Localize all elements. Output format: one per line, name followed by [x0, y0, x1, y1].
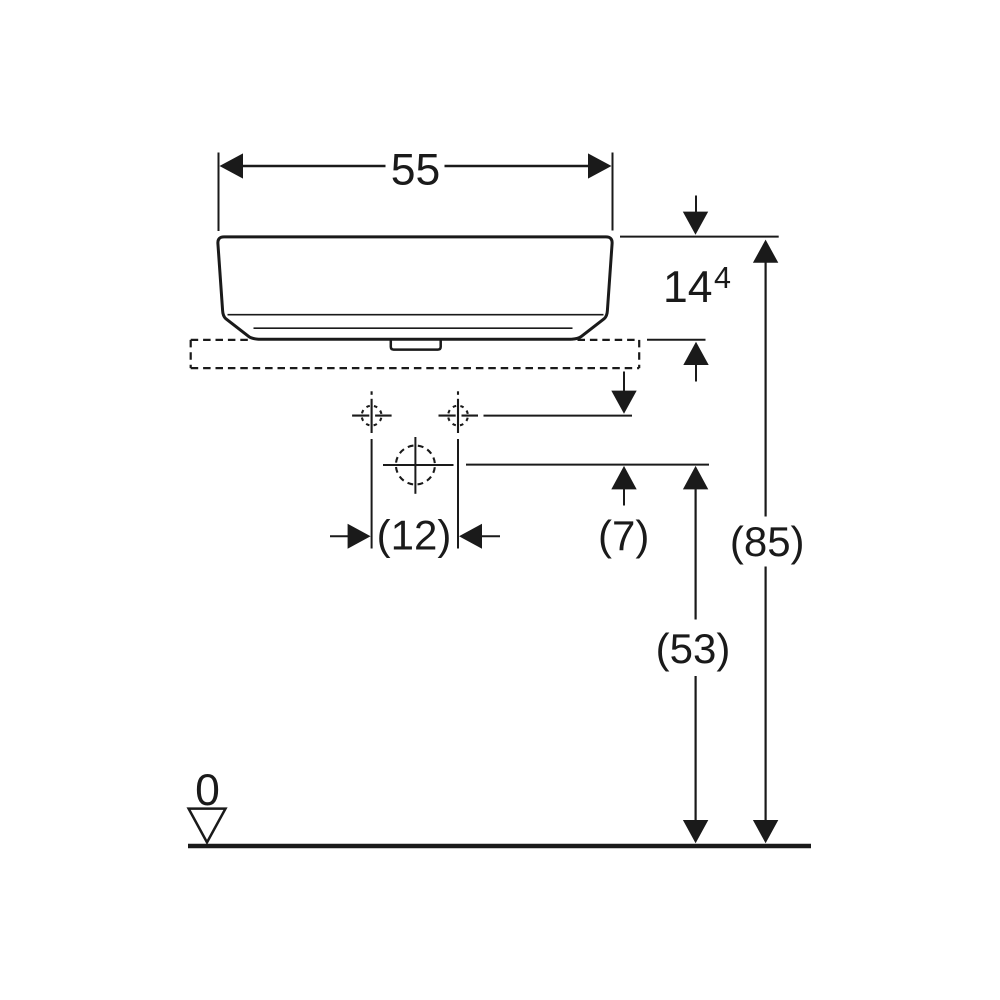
svg-text:(85): (85)	[730, 518, 805, 565]
svg-text:55: 55	[391, 146, 441, 195]
svg-text:(7): (7)	[598, 512, 649, 559]
svg-text:0: 0	[195, 766, 220, 815]
svg-text:(12): (12)	[377, 512, 452, 559]
svg-text:(53): (53)	[656, 625, 731, 672]
